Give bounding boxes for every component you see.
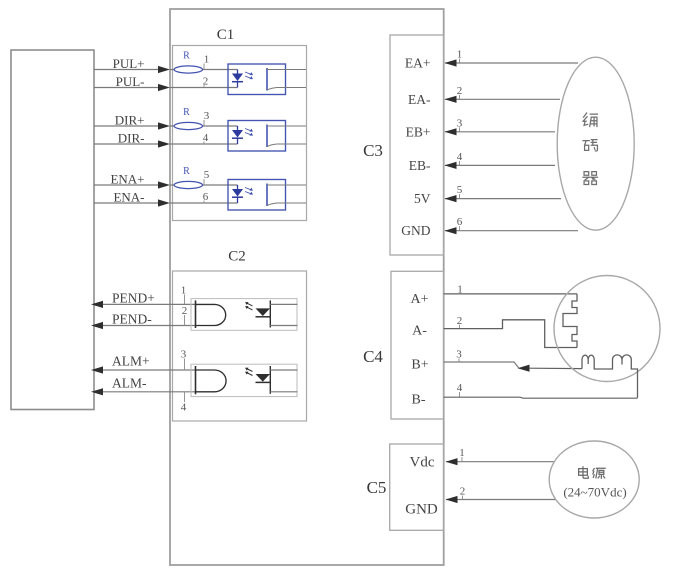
svg-text:ALM+: ALM+ <box>112 354 150 369</box>
wire C3 pin 5 <box>445 198 561 200</box>
wire A+ (pin1 to motor winding A top) <box>444 293 577 295</box>
pin number 2 (C3) <box>457 85 463 100</box>
arrowhead ENA+ <box>158 181 170 188</box>
controller box (left) <box>11 50 94 410</box>
wire ALM- to controller <box>96 391 196 393</box>
svg-text:C2: C2 <box>228 249 246 265</box>
connector C4 box <box>391 271 444 419</box>
label ALM+ <box>112 354 150 369</box>
svg-text:PUL+: PUL+ <box>113 56 145 71</box>
svg-text:EB+: EB+ <box>406 124 431 139</box>
pin number 2 (C4) <box>457 315 463 329</box>
svg-text:C5: C5 <box>367 478 387 497</box>
connector C2 box <box>173 271 307 421</box>
label PEND- <box>112 312 152 327</box>
svg-text:B+: B+ <box>411 358 428 373</box>
wire ALM+ to controller <box>96 369 196 371</box>
svg-text:EA+: EA+ <box>405 56 431 71</box>
label R of R1 <box>183 51 190 62</box>
connector C1 box <box>173 46 307 221</box>
svg-text:A+: A+ <box>410 292 428 307</box>
pin number 4 (C3) <box>457 151 463 166</box>
pin number 6 <box>203 191 209 203</box>
pin number 6 (C3) <box>457 216 463 231</box>
label EA+ (C3) <box>405 56 431 71</box>
arrowhead C3 pin 2 <box>445 96 457 103</box>
pin number 2 <box>203 76 209 88</box>
svg-text:GND: GND <box>405 502 438 518</box>
arrowhead DIR+ <box>158 122 170 129</box>
pin number 5 <box>204 169 210 185</box>
wire PUL+ from controller <box>94 69 238 71</box>
connector C3 box <box>390 35 444 255</box>
text 源 (power char 2) <box>593 468 605 478</box>
label EB- (C3) <box>409 158 431 173</box>
motor circle <box>554 276 660 382</box>
driver outer box <box>170 9 444 565</box>
arrowhead C3 pin 5 <box>445 195 457 202</box>
arrowhead ENA- <box>158 199 170 206</box>
pin number 1 (C5) <box>459 447 465 462</box>
motor winding A (phase A coil) <box>563 294 577 348</box>
pin number 3 <box>204 110 210 126</box>
pin number 1 (C4) <box>457 283 463 295</box>
label C2 <box>228 249 246 265</box>
svg-text:1: 1 <box>181 285 187 297</box>
svg-text:3: 3 <box>181 349 187 361</box>
label C3 <box>363 141 383 160</box>
svg-text:C4: C4 <box>363 347 383 366</box>
svg-text:(24~70Vdc): (24~70Vdc) <box>563 484 626 499</box>
pin number 3 (C2) <box>181 349 187 371</box>
text 器 (encoder char 3) <box>583 172 597 185</box>
pin number 4 (C2) <box>181 392 187 414</box>
power supply ellipse <box>549 441 639 518</box>
pin number 1 <box>204 54 210 70</box>
svg-text:5: 5 <box>204 169 210 181</box>
svg-text:C3: C3 <box>363 141 383 160</box>
label DIR+ <box>115 113 145 128</box>
wire B- (pin4 to motor winding B right) <box>444 397 638 398</box>
label (24~70Vdc) <box>563 484 626 499</box>
connector C5 box <box>390 444 444 530</box>
label C5 <box>367 478 387 497</box>
arrowhead PEND- <box>91 322 103 329</box>
arrowhead C5 pin 1 <box>446 458 458 465</box>
wire C3 pin 2 <box>445 98 560 100</box>
wire ENA- from controller <box>94 202 238 204</box>
resistor R2 <box>174 122 202 129</box>
pin number 3 (C4) <box>456 349 462 362</box>
svg-text:C1: C1 <box>217 27 235 43</box>
wire C3 pin 3 <box>445 131 555 133</box>
label ALM- <box>112 375 147 390</box>
svg-text:GND: GND <box>401 223 430 238</box>
svg-text:EA-: EA- <box>408 92 431 107</box>
optocoupler U2 (DIR) <box>228 121 306 152</box>
wire PUL- from controller <box>94 87 238 89</box>
label R of R2 <box>183 107 190 118</box>
label PUL+ <box>113 56 145 71</box>
svg-text:R: R <box>183 107 190 118</box>
resistor R3 <box>174 181 202 188</box>
svg-text:5V: 5V <box>414 191 431 206</box>
svg-text:1: 1 <box>204 54 210 66</box>
svg-text:R: R <box>183 166 190 177</box>
wire B+ (to motor winding B left) <box>529 367 582 369</box>
wire A- (pin2 to motor winding A bottom) <box>444 320 577 348</box>
optocoupler U3 (ENA) <box>228 180 306 211</box>
label PUL- <box>116 74 145 89</box>
label EB+ (C3) <box>406 124 431 139</box>
pin number 1 (C3) <box>457 49 463 64</box>
wire C3 pin 1 <box>445 62 578 64</box>
wire Vdc (pin1 to power supply) <box>446 461 555 463</box>
wire DIR+ from controller <box>94 125 238 127</box>
label EA- (C3) <box>408 92 431 107</box>
encoder ellipse <box>557 57 634 230</box>
arrowhead on B+ wire <box>518 365 530 372</box>
arrowhead C5 pin 2 <box>446 496 458 503</box>
pin number 3 (C3) <box>457 117 463 132</box>
svg-text:PEND+: PEND+ <box>112 290 155 305</box>
svg-text:DIR-: DIR- <box>118 131 145 146</box>
text 电 (power char 1) <box>579 467 589 478</box>
wire PEND+ to controller <box>96 303 196 305</box>
svg-text:PUL-: PUL- <box>116 74 145 89</box>
arrowhead PUL- <box>158 84 170 91</box>
svg-text:B-: B- <box>412 393 426 408</box>
svg-text:EB-: EB- <box>409 158 431 173</box>
pin number 4 <box>203 132 209 144</box>
svg-text:Vdc: Vdc <box>410 455 435 471</box>
wire B+ stub (pin3) <box>444 362 519 368</box>
label Vdc (C5) <box>410 455 435 471</box>
text 编 (encoder char 1) <box>583 113 597 126</box>
label A+ (C4) <box>410 292 428 307</box>
arrowhead PEND+ <box>91 301 103 308</box>
wire DIR- from controller <box>94 143 238 145</box>
label B- (C4) <box>412 393 426 408</box>
label C4 <box>363 347 383 366</box>
label DIR- <box>118 131 145 146</box>
label B+ (C4) <box>411 358 428 373</box>
svg-text:4: 4 <box>181 402 187 414</box>
pin number 2 (C5) <box>460 486 466 500</box>
arrowhead ALM- <box>91 388 103 395</box>
wire C3 pin 6 <box>445 230 578 232</box>
arrowhead PUL+ <box>158 66 170 73</box>
svg-text:ENA-: ENA- <box>113 190 144 205</box>
svg-text:ALM-: ALM- <box>112 375 147 390</box>
optocoupler U5 (ALM) <box>191 364 298 396</box>
svg-text:3: 3 <box>204 110 210 122</box>
label A- (C4) <box>412 324 427 339</box>
resistor R1 <box>174 66 202 73</box>
arrowhead DIR- <box>158 140 170 147</box>
label C1 <box>217 27 235 43</box>
svg-text:A-: A- <box>412 324 427 339</box>
label PEND+ <box>112 290 155 305</box>
arrowhead ALM+ <box>91 366 103 373</box>
optocoupler U1 (PUL) <box>228 64 306 95</box>
wire C3 pin 4 <box>445 164 555 166</box>
pin number 4 (C4) <box>457 382 463 397</box>
label GND (C5) <box>405 502 438 518</box>
svg-text:PEND-: PEND- <box>112 312 152 327</box>
wire GND (pin2 to power supply) <box>446 499 556 501</box>
text 码 (encoder char 2) <box>583 140 597 151</box>
arrowhead C3 pin 3 <box>445 128 457 135</box>
label 5V (C3) <box>414 191 431 206</box>
arrowhead C3 pin 4 <box>445 162 457 169</box>
svg-text:R: R <box>183 51 190 62</box>
label R of R3 <box>183 166 190 177</box>
arrowhead C3 pin 6 <box>445 227 457 234</box>
svg-text:ENA+: ENA+ <box>110 172 144 187</box>
wire ENA+ from controller <box>94 184 238 186</box>
label GND (C3) <box>401 223 430 238</box>
svg-text:DIR+: DIR+ <box>115 113 145 128</box>
arrowhead C3 pin 1 <box>445 59 457 66</box>
pin number 1 (C2) <box>181 285 187 305</box>
motor winding B (phase B coil) <box>582 355 638 398</box>
wire PEND- to controller <box>96 325 196 327</box>
pin number 5 (C3) <box>457 184 463 199</box>
label ENA- <box>113 190 144 205</box>
pin number 2 (C2) <box>182 305 188 326</box>
label ENA+ <box>110 172 144 187</box>
optocoupler U4 (PEND) <box>191 299 298 331</box>
